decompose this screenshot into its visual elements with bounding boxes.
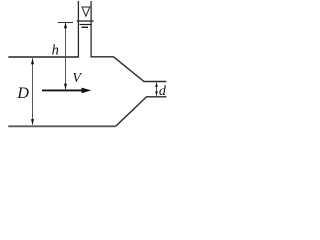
svg-text:d: d xyxy=(159,84,167,99)
svg-text:V: V xyxy=(72,71,82,86)
svg-text:h: h xyxy=(52,43,59,59)
svg-text:D: D xyxy=(16,85,29,102)
